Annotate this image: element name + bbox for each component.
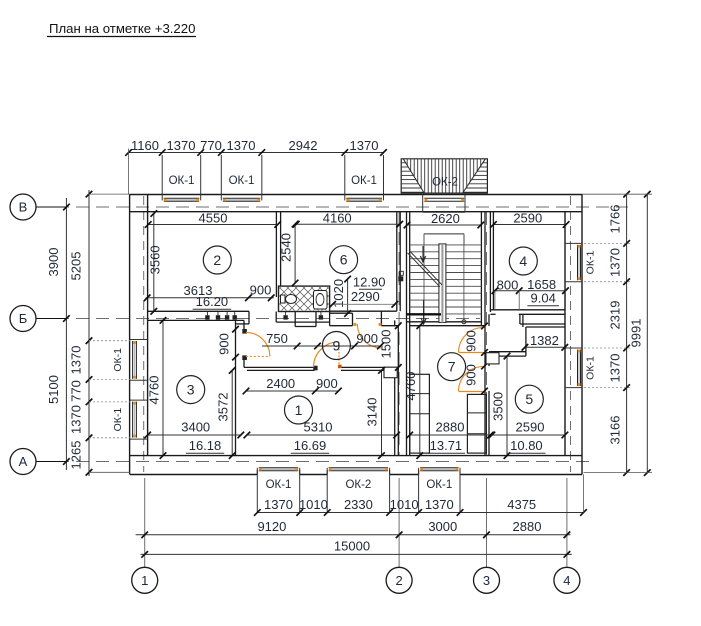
- svg-text:ОК-1: ОК-1: [585, 356, 597, 380]
- svg-text:16.69: 16.69: [294, 438, 327, 453]
- svg-text:3560: 3560: [148, 245, 163, 274]
- svg-text:4: 4: [519, 253, 527, 269]
- svg-text:800: 800: [497, 278, 519, 293]
- svg-text:7: 7: [448, 359, 456, 375]
- svg-text:3: 3: [187, 382, 195, 398]
- svg-text:ОК-2: ОК-2: [432, 177, 458, 189]
- svg-text:1010: 1010: [390, 497, 419, 512]
- svg-text:2290: 2290: [351, 289, 380, 304]
- svg-text:2942: 2942: [289, 138, 318, 153]
- svg-text:1370: 1370: [264, 497, 293, 512]
- svg-text:1: 1: [141, 573, 148, 588]
- svg-text:1370: 1370: [227, 138, 256, 153]
- svg-text:ОК-1: ОК-1: [351, 175, 377, 187]
- svg-text:3500: 3500: [491, 392, 506, 421]
- svg-text:3572: 3572: [215, 393, 230, 422]
- svg-text:1370: 1370: [608, 248, 623, 277]
- svg-text:3000: 3000: [428, 519, 457, 534]
- svg-text:1370: 1370: [68, 346, 83, 375]
- svg-text:900: 900: [216, 333, 231, 355]
- svg-text:16.18: 16.18: [189, 438, 222, 453]
- svg-text:3140: 3140: [365, 398, 380, 427]
- svg-text:9991: 9991: [629, 319, 644, 348]
- svg-text:А: А: [19, 454, 28, 469]
- svg-text:1370: 1370: [425, 497, 454, 512]
- svg-text:9.04: 9.04: [531, 291, 556, 306]
- svg-text:ОК-1: ОК-1: [229, 175, 255, 187]
- svg-text:2: 2: [213, 252, 221, 268]
- svg-text:15000: 15000: [334, 539, 370, 554]
- svg-text:1160: 1160: [131, 138, 159, 153]
- svg-text:1370: 1370: [68, 405, 83, 434]
- svg-text:План на отметке +3.220: План на отметке +3.220: [49, 21, 195, 36]
- svg-text:770: 770: [68, 380, 83, 402]
- svg-text:9120: 9120: [257, 519, 286, 534]
- svg-text:900: 900: [356, 331, 378, 346]
- svg-text:2319: 2319: [608, 301, 623, 330]
- svg-text:В: В: [19, 200, 28, 215]
- svg-text:1: 1: [295, 402, 303, 418]
- svg-text:Б: Б: [19, 311, 28, 326]
- svg-text:1370: 1370: [167, 138, 196, 153]
- svg-text:ОК-1: ОК-1: [426, 479, 452, 491]
- svg-text:1766: 1766: [608, 205, 623, 234]
- svg-text:4550: 4550: [199, 211, 228, 226]
- svg-text:2540: 2540: [278, 233, 293, 262]
- svg-text:900: 900: [316, 376, 338, 391]
- svg-text:4760: 4760: [146, 376, 161, 405]
- svg-text:4375: 4375: [507, 497, 536, 512]
- svg-text:750: 750: [266, 331, 288, 346]
- svg-text:ОК-1: ОК-1: [112, 348, 124, 372]
- svg-text:2880: 2880: [513, 519, 542, 534]
- svg-text:2620: 2620: [431, 211, 460, 226]
- svg-text:4: 4: [563, 573, 570, 588]
- svg-text:770: 770: [200, 138, 222, 153]
- svg-text:1010: 1010: [299, 497, 328, 512]
- svg-text:5205: 5205: [68, 252, 83, 281]
- svg-text:10.80: 10.80: [510, 438, 543, 453]
- svg-text:900: 900: [464, 330, 479, 352]
- svg-text:3166: 3166: [608, 416, 623, 445]
- svg-text:16.20: 16.20: [196, 294, 229, 309]
- svg-text:4760: 4760: [403, 372, 418, 401]
- svg-text:ОК-1: ОК-1: [112, 408, 124, 432]
- svg-text:4160: 4160: [323, 210, 352, 225]
- svg-text:2330: 2330: [344, 497, 373, 512]
- svg-text:2880: 2880: [436, 420, 465, 435]
- svg-text:3: 3: [483, 573, 490, 588]
- svg-text:2400: 2400: [266, 376, 295, 391]
- svg-text:3900: 3900: [46, 248, 61, 277]
- svg-text:5100: 5100: [46, 375, 61, 404]
- svg-text:3400: 3400: [181, 420, 210, 435]
- svg-text:1370: 1370: [608, 354, 623, 383]
- svg-text:12.90: 12.90: [353, 275, 386, 290]
- svg-text:900: 900: [250, 283, 272, 298]
- svg-text:5310: 5310: [304, 420, 333, 435]
- svg-text:1500: 1500: [379, 330, 394, 359]
- svg-text:2590: 2590: [513, 211, 542, 226]
- svg-text:13.71: 13.71: [430, 438, 463, 453]
- svg-text:1382: 1382: [530, 333, 559, 348]
- svg-text:ОК-1: ОК-1: [169, 175, 195, 187]
- svg-text:9: 9: [333, 337, 341, 353]
- svg-text:6: 6: [340, 252, 348, 268]
- svg-text:ОК-1: ОК-1: [266, 479, 292, 491]
- svg-text:ОК-1: ОК-1: [585, 251, 597, 275]
- svg-text:ОК-2: ОК-2: [345, 479, 371, 491]
- svg-text:5: 5: [525, 391, 533, 407]
- svg-text:2: 2: [395, 573, 402, 588]
- svg-text:2590: 2590: [516, 420, 545, 435]
- svg-text:1370: 1370: [350, 138, 379, 153]
- svg-text:1265: 1265: [68, 441, 83, 470]
